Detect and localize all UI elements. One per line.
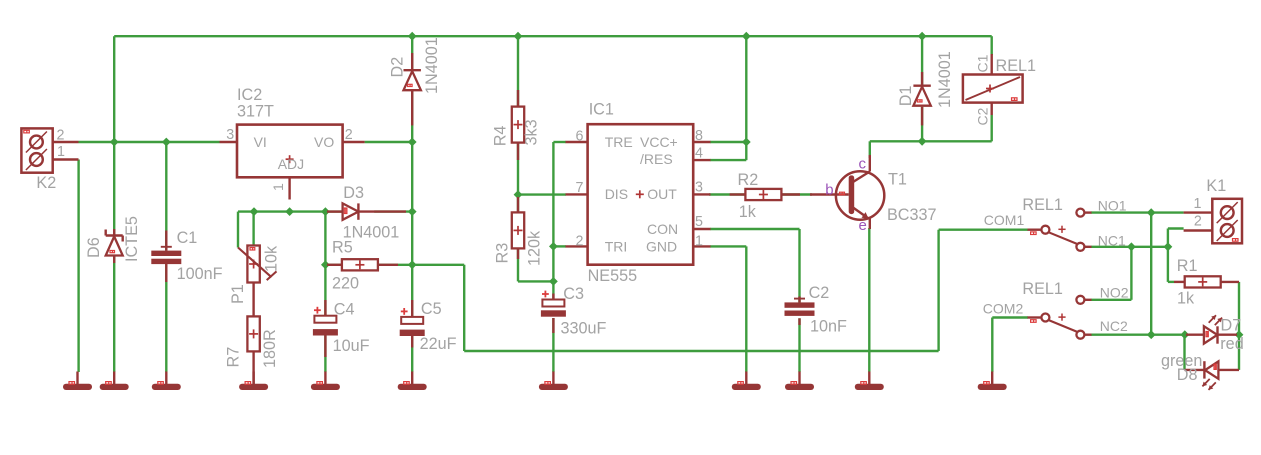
svg-text:TRI: TRI bbox=[605, 239, 628, 255]
svg-text:OUT: OUT bbox=[647, 186, 677, 202]
svg-text:NE555: NE555 bbox=[588, 267, 638, 285]
svg-text:NO2: NO2 bbox=[1100, 285, 1129, 301]
svg-text:/RES: /RES bbox=[640, 151, 673, 167]
svg-text:BC337: BC337 bbox=[887, 206, 937, 224]
svg-text:REL1: REL1 bbox=[1022, 280, 1063, 298]
svg-text:4: 4 bbox=[695, 145, 703, 161]
svg-text:COM2: COM2 bbox=[983, 301, 1024, 317]
svg-text:red: red bbox=[1220, 335, 1243, 353]
svg-text:10k: 10k bbox=[262, 245, 280, 272]
svg-text:ADJ: ADJ bbox=[278, 156, 304, 172]
svg-text:3k3: 3k3 bbox=[523, 119, 541, 145]
svg-text:VI: VI bbox=[254, 134, 267, 150]
svg-text:3: 3 bbox=[226, 127, 234, 143]
svg-text:c: c bbox=[859, 155, 867, 172]
svg-text:IC1: IC1 bbox=[589, 101, 614, 119]
svg-text:330uF: 330uF bbox=[561, 320, 607, 338]
svg-text:R4: R4 bbox=[492, 126, 510, 147]
svg-text:5: 5 bbox=[695, 214, 703, 230]
svg-text:K2: K2 bbox=[36, 174, 56, 192]
svg-text:100nF: 100nF bbox=[177, 265, 223, 283]
svg-text:IC2: IC2 bbox=[237, 86, 262, 104]
svg-text:317T: 317T bbox=[237, 102, 274, 120]
svg-text:C1: C1 bbox=[177, 229, 198, 247]
svg-text:1k: 1k bbox=[1177, 290, 1195, 308]
svg-text:CON: CON bbox=[647, 221, 678, 237]
svg-text:C1: C1 bbox=[975, 54, 991, 72]
svg-text:VCC+: VCC+ bbox=[640, 134, 678, 150]
svg-text:R7: R7 bbox=[225, 347, 243, 368]
svg-text:180R: 180R bbox=[261, 329, 279, 368]
svg-text:22uF: 22uF bbox=[420, 335, 457, 353]
svg-text:1: 1 bbox=[270, 183, 286, 191]
svg-text:R2: R2 bbox=[738, 171, 759, 189]
svg-text:e: e bbox=[859, 217, 867, 234]
svg-text:120k: 120k bbox=[526, 230, 544, 266]
svg-text:2: 2 bbox=[57, 128, 65, 144]
svg-text:C2: C2 bbox=[975, 107, 991, 125]
svg-text:2: 2 bbox=[345, 127, 353, 143]
svg-text:R1: R1 bbox=[1177, 257, 1198, 275]
svg-text:6: 6 bbox=[576, 128, 584, 144]
svg-text:1: 1 bbox=[57, 144, 65, 160]
svg-text:D1: D1 bbox=[897, 86, 915, 107]
svg-text:2: 2 bbox=[576, 233, 584, 249]
svg-text:b: b bbox=[825, 181, 833, 198]
svg-text:COM1: COM1 bbox=[984, 212, 1025, 228]
svg-text:D8: D8 bbox=[1177, 366, 1198, 384]
svg-text:REL1: REL1 bbox=[1022, 196, 1063, 214]
svg-text:T1: T1 bbox=[888, 171, 907, 189]
svg-text:1N4001: 1N4001 bbox=[936, 51, 954, 108]
svg-text:NC2: NC2 bbox=[1100, 318, 1128, 334]
svg-text:GND: GND bbox=[646, 239, 677, 255]
svg-text:1N4001: 1N4001 bbox=[423, 37, 441, 94]
svg-text:C5: C5 bbox=[421, 300, 442, 318]
svg-text:NC1: NC1 bbox=[1098, 232, 1126, 248]
svg-text:D7: D7 bbox=[1221, 317, 1242, 335]
svg-text:10uF: 10uF bbox=[333, 337, 370, 355]
svg-text:REL1: REL1 bbox=[996, 57, 1037, 75]
svg-text:3: 3 bbox=[695, 180, 703, 196]
svg-text:DIS: DIS bbox=[605, 186, 628, 202]
svg-text:D2: D2 bbox=[389, 57, 407, 78]
svg-text:1: 1 bbox=[695, 233, 703, 249]
svg-text:1N4001: 1N4001 bbox=[343, 223, 400, 241]
svg-text:ICTE5: ICTE5 bbox=[123, 216, 141, 262]
svg-text:NO1: NO1 bbox=[1098, 198, 1127, 214]
svg-text:D3: D3 bbox=[343, 184, 364, 202]
svg-text:C3: C3 bbox=[563, 285, 584, 303]
svg-text:7: 7 bbox=[576, 180, 584, 196]
svg-text:D6: D6 bbox=[85, 237, 103, 258]
svg-text:R3: R3 bbox=[494, 243, 512, 264]
svg-text:VO: VO bbox=[314, 134, 334, 150]
svg-text:C4: C4 bbox=[334, 301, 355, 319]
svg-text:1: 1 bbox=[1193, 196, 1201, 212]
svg-text:TRE: TRE bbox=[605, 134, 633, 150]
svg-text:220: 220 bbox=[332, 275, 359, 293]
svg-text:1k: 1k bbox=[739, 203, 757, 221]
svg-text:8: 8 bbox=[695, 128, 703, 144]
svg-text:K1: K1 bbox=[1206, 177, 1226, 195]
svg-text:10nF: 10nF bbox=[810, 318, 847, 336]
svg-text:P1: P1 bbox=[229, 284, 247, 304]
svg-text:C2: C2 bbox=[809, 284, 830, 302]
svg-text:2: 2 bbox=[1194, 213, 1202, 229]
